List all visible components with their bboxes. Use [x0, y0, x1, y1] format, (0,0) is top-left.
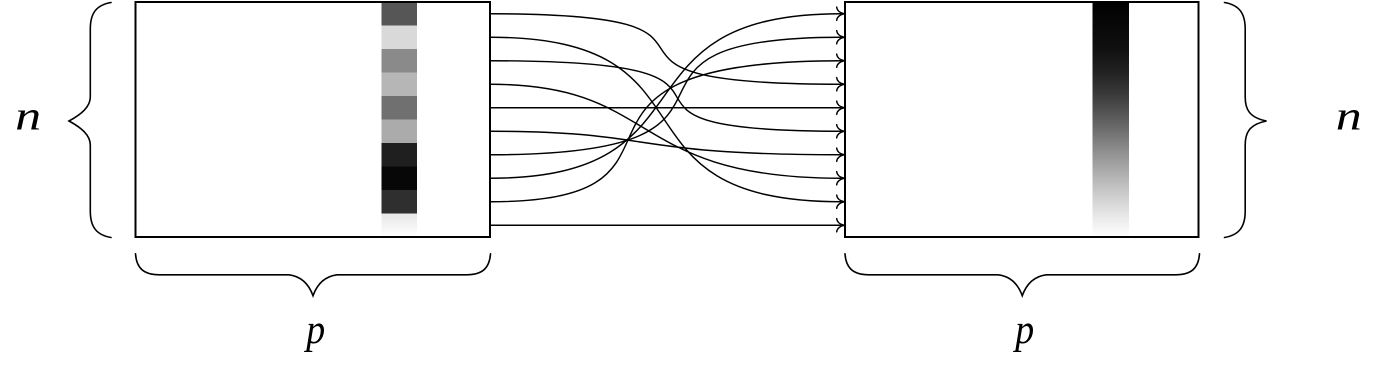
left matrix border	[136, 2, 491, 237]
left matrix cell row 6	[382, 120, 418, 144]
permutation arrow row 9 to row 3	[490, 61, 842, 202]
right matrix sorted gradient column	[1093, 2, 1130, 237]
left matrix cell row 9	[382, 190, 418, 214]
permutation arrow row 3 to row 6	[490, 61, 842, 132]
right p brace	[845, 254, 1200, 296]
label n left	[17, 110, 39, 130]
label p right	[1013, 323, 1033, 352]
permutation arrow row 4 to row 8	[490, 84, 842, 178]
left matrix cell row 2	[382, 26, 418, 50]
left matrix cell row 1	[382, 2, 418, 26]
left p brace	[136, 254, 491, 296]
left n brace	[69, 3, 111, 238]
permutation arrow row 10 to row 10	[490, 224, 842, 226]
left matrix cell row 5	[382, 96, 418, 120]
left matrix cell row 7	[382, 143, 418, 167]
permutation arrow row 2 to row 9	[490, 37, 842, 202]
left matrix cell row 10	[382, 214, 418, 238]
permutation arrow row 8 to row 1	[490, 14, 842, 179]
permutation arrow row 7 to row 2	[490, 37, 842, 155]
right n brace	[1225, 3, 1267, 238]
left matrix cell row 3	[382, 49, 418, 73]
left matrix cell row 4	[382, 73, 418, 97]
label n right	[1338, 110, 1360, 130]
label p left	[304, 323, 324, 352]
right matrix border	[845, 2, 1199, 237]
permutation arrow row 5 to row 5	[490, 107, 842, 109]
left matrix cell row 8	[382, 167, 418, 191]
permutation arrow row 6 to row 7	[490, 131, 842, 155]
permutation arrow row 1 to row 4	[490, 14, 842, 85]
